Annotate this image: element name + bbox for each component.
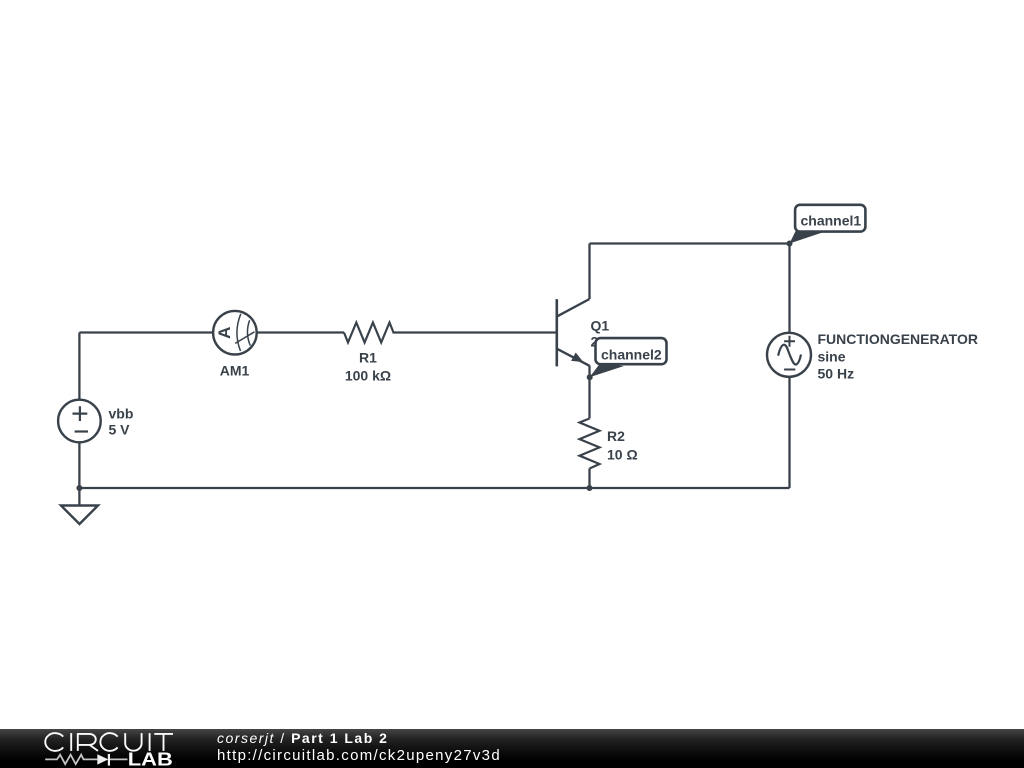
transistor Q1 [557,299,590,366]
svg-text:50 Hz: 50 Hz [818,365,855,381]
svg-text:R1: R1 [359,349,377,365]
node ground junction [76,485,82,491]
wire R2 bottom to ground rail [588,469,590,489]
ammeter AM1 [213,311,257,355]
svg-text:100 kΩ: 100 kΩ [345,367,391,383]
svg-text:R2: R2 [607,428,625,444]
wire function generator bottom to ground rail [788,377,790,489]
svg-text:Q1: Q1 [591,317,610,333]
wire vbb bottom to ground node [78,443,80,489]
resistor R1 [344,323,394,343]
label Q1 2N3904 [591,317,640,349]
svg-text:channel1: channel1 [801,212,862,228]
node R2 ground junction [587,485,593,491]
wire channel1 node down to function generator [788,244,790,334]
wire ground rail [79,487,789,489]
label R1 100 kΩ [345,349,391,383]
svg-text:sine: sine [818,348,846,364]
wire vbb top vertical [78,333,80,400]
label R2 10 Ω [607,428,638,463]
probe flag channel1 [790,205,866,244]
function generator FG1 [767,333,811,377]
node emitter junction [587,374,593,380]
ground [61,488,98,524]
svg-text:A: A [215,327,234,339]
wire ammeter to R1 [257,331,344,333]
label vbb 5 V [109,406,134,438]
resistor R2 [580,419,600,469]
label AM1 [220,363,250,379]
svg-text:vbb: vbb [109,406,134,422]
wire emitter vertical to R2 [588,366,590,419]
probe flag channel2 [590,338,667,377]
svg-text:channel2: channel2 [601,346,662,362]
svg-text:AM1: AM1 [220,363,250,379]
label FUNCTIONGENERATOR sine 50 Hz [818,331,978,381]
wire top horizontal collector to channel1 node [590,242,790,244]
node channel1 junction [787,241,793,247]
wire collector vertical [588,244,590,300]
svg-text:FUNCTIONGENERATOR: FUNCTIONGENERATOR [818,331,978,347]
CircuitLab logo [0,729,210,768]
wire top-left horizontal to ammeter [79,331,213,333]
svg-text:10 Ω: 10 Ω [607,447,638,463]
footer bar [0,729,1024,768]
svg-text:5 V: 5 V [109,422,131,438]
wire R1 to Q1 base [393,331,557,333]
svg-text:LAB: LAB [128,750,173,768]
voltage source vbb [58,400,101,443]
